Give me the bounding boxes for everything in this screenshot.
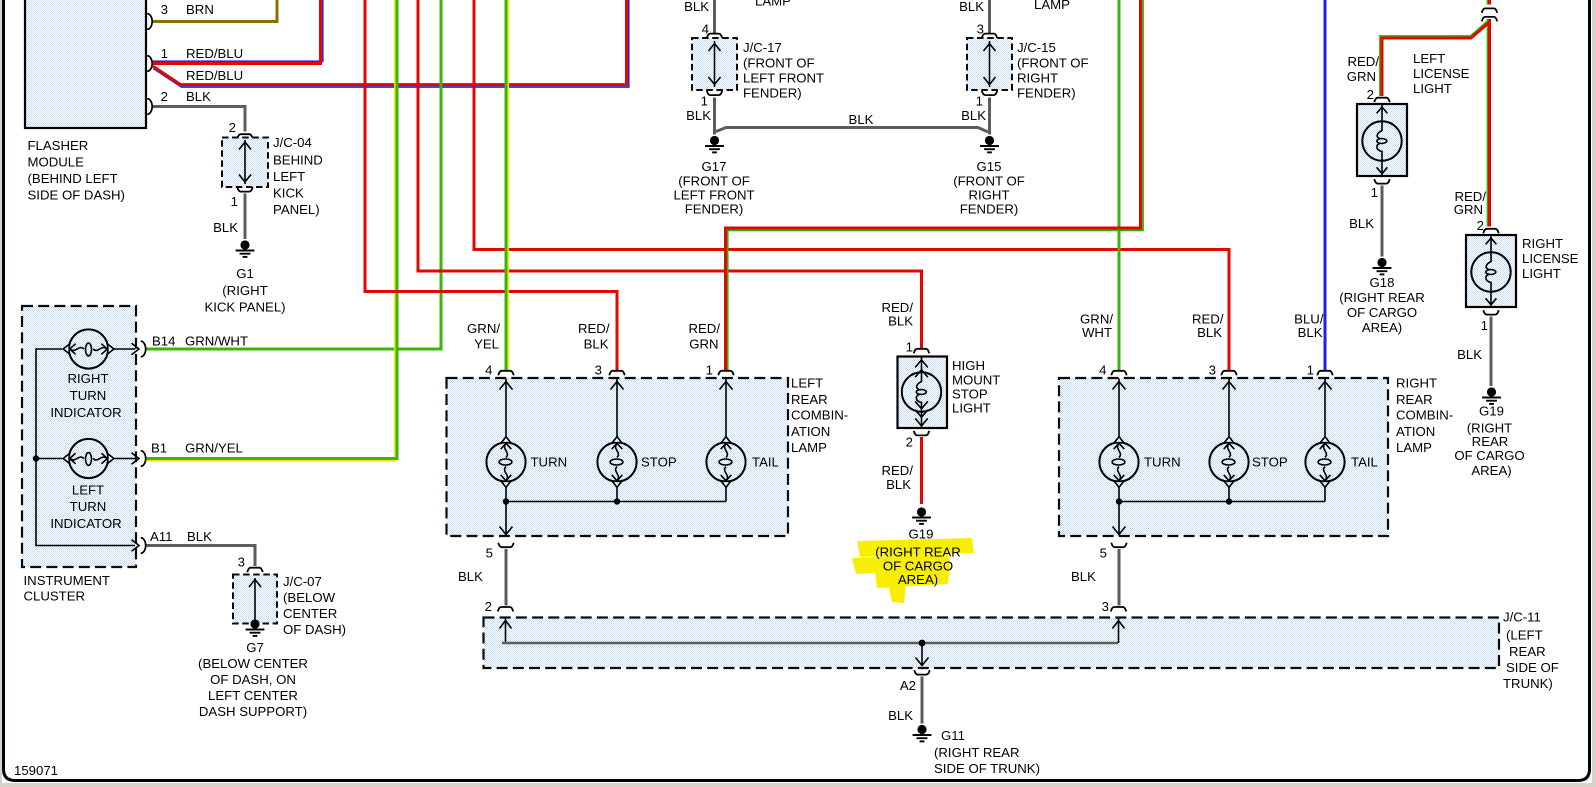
svg-text:1: 1 <box>706 363 713 378</box>
cluster pin A11 <box>132 529 213 553</box>
svg-text:LAMP: LAMP <box>1034 0 1070 12</box>
svg-text:BLK: BLK <box>458 569 483 584</box>
svg-text:B14: B14 <box>152 334 175 349</box>
right lamp pin 3 <box>1192 312 1237 437</box>
svg-text:2: 2 <box>485 599 492 614</box>
svg-text:G7: G7 <box>246 640 264 655</box>
svg-text:RIGHT: RIGHT <box>67 371 108 386</box>
svg-text:ATION: ATION <box>1396 424 1435 439</box>
svg-text:BEHIND: BEHIND <box>273 153 323 168</box>
svg-text:TURN: TURN <box>70 499 107 514</box>
wire GRN/YEL to left lamp pin 4 <box>506 0 508 370</box>
svg-text:LIGHT: LIGHT <box>952 401 991 416</box>
svg-text:KICK PANEL): KICK PANEL) <box>204 300 285 315</box>
svg-text:LIGHT: LIGHT <box>1522 266 1561 281</box>
right lamp pin 5 <box>1100 502 1127 561</box>
svg-text:RED/: RED/ <box>1347 54 1379 69</box>
stop bulb right lamp <box>1209 437 1287 488</box>
turn bulb left lamp <box>486 437 567 488</box>
svg-text:BRN: BRN <box>186 2 214 17</box>
wire RED/BLK hmsl to G19 <box>881 437 921 504</box>
svg-text:G11: G11 <box>941 728 965 743</box>
junction connector J/C-07 <box>233 555 346 638</box>
svg-text:FENDER): FENDER) <box>960 202 1019 217</box>
svg-text:RED/BLU: RED/BLU <box>186 46 243 61</box>
svg-text:GRN: GRN <box>689 337 718 352</box>
svg-text:INDICATOR: INDICATOR <box>50 405 121 420</box>
svg-text:A11: A11 <box>150 529 173 544</box>
svg-text:159071: 159071 <box>14 763 58 778</box>
ground G18 <box>1339 258 1424 335</box>
svg-text:OF DASH, ON: OF DASH, ON <box>210 672 296 687</box>
flasher pin 3 <box>147 2 214 29</box>
svg-text:BLK: BLK <box>888 708 913 723</box>
svg-text:BLK: BLK <box>1071 569 1096 584</box>
wire BLK A2 to G11 <box>888 677 922 724</box>
svg-text:HIGH: HIGH <box>952 358 985 373</box>
wire GRN/YEL to top <box>147 0 398 461</box>
turn bulb right lamp <box>1099 437 1180 488</box>
svg-text:(FRONT OF: (FRONT OF <box>953 174 1025 189</box>
wire BLK right lamp to J/C-11 pin 3 <box>1071 549 1126 614</box>
wire BRN <box>153 0 277 22</box>
wire GRN/WHT to top <box>147 0 442 349</box>
svg-text:BLK: BLK <box>686 108 711 123</box>
right turn indicator <box>50 329 139 420</box>
ground G19 right license <box>1454 387 1524 478</box>
svg-text:BLK: BLK <box>888 314 913 329</box>
svg-text:3: 3 <box>161 2 168 17</box>
wire RED/BLU b <box>153 0 629 87</box>
svg-text:2: 2 <box>1367 87 1374 102</box>
svg-text:LICENSE: LICENSE <box>1413 66 1470 81</box>
svg-text:TURN: TURN <box>1144 455 1181 470</box>
svg-text:ATION: ATION <box>791 424 830 439</box>
wire RED/BLU a <box>153 0 323 64</box>
svg-text:BLK: BLK <box>886 477 911 492</box>
wire BLK flasher to J/C-04 <box>153 107 245 132</box>
left license light <box>1347 51 1470 200</box>
svg-text:MODULE: MODULE <box>28 155 85 170</box>
svg-text:REAR: REAR <box>1509 644 1546 659</box>
left lamp pin 3 <box>578 321 625 437</box>
svg-text:AREA): AREA) <box>1362 320 1402 335</box>
svg-text:A2: A2 <box>900 678 916 693</box>
svg-text:SIDE OF DASH): SIDE OF DASH) <box>28 188 125 203</box>
svg-text:G19: G19 <box>1479 404 1504 419</box>
svg-text:RIGHT: RIGHT <box>968 188 1009 203</box>
svg-text:G1: G1 <box>236 266 254 281</box>
svg-text:(LEFT: (LEFT <box>1506 628 1543 643</box>
svg-text:(FRONT OF: (FRONT OF <box>678 174 750 189</box>
svg-text:1: 1 <box>231 194 238 209</box>
highlighter marks <box>852 538 974 603</box>
svg-text:LIGHT: LIGHT <box>1413 81 1452 96</box>
cluster pin B1 <box>141 441 243 467</box>
wire RED/GRN branch to left license light <box>1380 21 1490 97</box>
svg-text:1: 1 <box>906 340 913 355</box>
left lamp pin 5 <box>486 502 514 561</box>
svg-text:COMBIN-: COMBIN- <box>791 408 848 423</box>
svg-text:WHT: WHT <box>1082 325 1112 340</box>
junction connector J/C-17 <box>692 34 824 109</box>
right lamp pin 1 <box>1294 312 1333 437</box>
svg-text:INDICATOR: INDICATOR <box>50 516 121 531</box>
svg-text:3: 3 <box>595 363 602 378</box>
junction connector J/C-15 <box>967 34 1089 109</box>
svg-text:TAIL: TAIL <box>752 455 779 470</box>
svg-text:GRN/YEL: GRN/YEL <box>185 441 243 456</box>
svg-text:J/C-11: J/C-11 <box>1503 610 1541 625</box>
svg-text:OF CARGO: OF CARGO <box>1454 448 1524 463</box>
svg-text:1: 1 <box>976 94 983 109</box>
svg-text:J/C-17: J/C-17 <box>743 40 782 55</box>
svg-text:2: 2 <box>229 120 236 135</box>
ground G15 <box>953 136 1025 217</box>
svg-text:MOUNT: MOUNT <box>952 373 1000 388</box>
cluster pin B14 <box>141 334 248 357</box>
svg-text:BLK: BLK <box>1349 216 1374 231</box>
wire RED/GRN license feed <box>1488 0 1490 227</box>
svg-text:LEFT: LEFT <box>273 169 305 184</box>
svg-text:3: 3 <box>238 555 245 570</box>
wire BLU/BLK to right lamp pin 1 <box>1324 0 1327 370</box>
svg-text:GRN/WHT: GRN/WHT <box>185 334 248 349</box>
svg-text:LEFT: LEFT <box>72 483 104 498</box>
svg-text:G15: G15 <box>977 159 1002 174</box>
inline connector on license feed <box>1482 8 1497 21</box>
svg-text:(BELOW CENTER: (BELOW CENTER <box>198 656 308 671</box>
svg-text:YEL: YEL <box>474 337 499 352</box>
svg-text:REAR: REAR <box>791 392 828 407</box>
svg-text:LAMP: LAMP <box>755 0 791 9</box>
high mount stop light <box>881 300 1000 450</box>
wire BLK A11 to J/C-07 <box>147 546 256 567</box>
svg-text:TURN: TURN <box>531 455 568 470</box>
instrument cluster box <box>22 306 136 604</box>
svg-text:(RIGHT: (RIGHT <box>222 283 267 298</box>
wire BLK left license to G18 <box>1349 186 1382 257</box>
svg-text:RIGHT: RIGHT <box>1017 71 1058 86</box>
svg-text:(RIGHT REAR: (RIGHT REAR <box>1339 290 1424 305</box>
left rear combination lamp box <box>447 376 849 537</box>
svg-text:RIGHT: RIGHT <box>1396 376 1437 391</box>
svg-text:BLK: BLK <box>1457 347 1482 362</box>
svg-text:BLK: BLK <box>849 112 874 127</box>
ground G17 <box>673 136 754 217</box>
svg-text:BLK: BLK <box>684 0 709 14</box>
svg-text:2: 2 <box>906 435 913 450</box>
svg-text:GRN: GRN <box>1347 69 1376 84</box>
svg-text:2: 2 <box>161 89 168 104</box>
svg-text:1: 1 <box>1481 318 1488 333</box>
svg-text:LEFT CENTER: LEFT CENTER <box>208 688 298 703</box>
svg-text:4: 4 <box>485 363 492 378</box>
wire BLK J/C-04 to G1 <box>213 194 245 240</box>
svg-text:LEFT FRONT: LEFT FRONT <box>743 71 824 86</box>
svg-text:AREA): AREA) <box>898 572 938 587</box>
svg-text:BLK: BLK <box>1298 325 1323 340</box>
svg-text:1: 1 <box>1307 363 1314 378</box>
svg-text:BLK: BLK <box>187 529 212 544</box>
J/C-11 pin A2 <box>900 670 930 693</box>
svg-text:RED/: RED/ <box>881 463 913 478</box>
svg-text:CLUSTER: CLUSTER <box>24 589 86 604</box>
wire RED to left lamp stop pin 3 <box>365 0 617 370</box>
svg-text:(RIGHT REAR: (RIGHT REAR <box>934 745 1019 760</box>
wire RED/GRN to left lamp pin 1 <box>726 0 1144 370</box>
svg-text:BLK: BLK <box>961 108 986 123</box>
svg-text:RED/: RED/ <box>578 321 610 336</box>
svg-text:LEFT FRONT: LEFT FRONT <box>673 188 754 203</box>
svg-text:FENDER): FENDER) <box>1017 86 1076 101</box>
svg-text:RED/: RED/ <box>688 321 720 336</box>
svg-text:J/C-15: J/C-15 <box>1017 40 1056 55</box>
svg-text:3: 3 <box>1209 363 1216 378</box>
svg-text:G17: G17 <box>702 159 727 174</box>
svg-text:FENDER): FENDER) <box>685 202 744 217</box>
svg-text:BLK: BLK <box>213 220 238 235</box>
svg-text:LEFT: LEFT <box>791 376 823 391</box>
svg-text:STOP: STOP <box>1252 455 1288 470</box>
svg-text:FLASHER: FLASHER <box>28 138 89 153</box>
wire cluster internal bus <box>33 349 135 546</box>
wire BLK right license to G19 <box>1457 317 1491 387</box>
svg-text:REAR: REAR <box>1472 434 1509 449</box>
svg-text:(FRONT OF: (FRONT OF <box>1017 56 1089 71</box>
svg-text:STOP: STOP <box>952 387 988 402</box>
right lamp pin 4 <box>1080 312 1127 437</box>
svg-text:RED/BLU: RED/BLU <box>186 68 243 83</box>
junction connector J/C-04 <box>222 120 323 217</box>
svg-text:2: 2 <box>1477 218 1484 233</box>
left lamp pin 1 <box>688 321 733 437</box>
svg-text:(RIGHT REAR: (RIGHT REAR <box>875 545 960 560</box>
svg-text:BLK: BLK <box>959 0 984 14</box>
wire RED to high mount stop light pin 1 <box>418 0 922 348</box>
svg-text:(BEHIND LEFT: (BEHIND LEFT <box>28 171 118 186</box>
flasher pin 1 <box>147 46 243 83</box>
svg-text:G18: G18 <box>1370 275 1395 290</box>
svg-text:OF DASH): OF DASH) <box>283 622 346 637</box>
svg-text:1: 1 <box>701 94 708 109</box>
svg-text:J/C-07: J/C-07 <box>283 574 322 589</box>
svg-text:B1: B1 <box>151 441 167 456</box>
highlighted G19 location text <box>875 545 960 588</box>
left turn indicator <box>50 439 139 531</box>
svg-text:LAMP: LAMP <box>791 440 827 455</box>
ground G11 <box>913 725 1040 776</box>
svg-text:DASH SUPPORT): DASH SUPPORT) <box>199 704 307 719</box>
svg-text:INSTRUMENT: INSTRUMENT <box>24 573 110 588</box>
wire BLK left lamp to J/C-11 pin 2 <box>458 549 513 614</box>
svg-text:STOP: STOP <box>641 455 677 470</box>
svg-text:TAIL: TAIL <box>1351 455 1378 470</box>
right lamp internal bus <box>1116 488 1325 505</box>
svg-text:4: 4 <box>1099 363 1106 378</box>
ground G19 hmsl <box>909 507 934 541</box>
svg-text:BLK: BLK <box>1197 325 1222 340</box>
svg-text:1: 1 <box>161 46 168 61</box>
svg-text:FENDER): FENDER) <box>743 86 802 101</box>
wire BLK J/C-15 to G15 <box>961 98 989 135</box>
svg-text:SIDE OF TRUNK): SIDE OF TRUNK) <box>934 761 1040 776</box>
ground G1 <box>204 240 285 314</box>
svg-text:LAMP: LAMP <box>1396 440 1432 455</box>
svg-text:(FRONT OF: (FRONT OF <box>743 56 815 71</box>
stop bulb left lamp <box>597 437 676 488</box>
ground G7 <box>198 619 308 719</box>
svg-text:AREA): AREA) <box>1471 463 1511 478</box>
svg-text:J/C-04: J/C-04 <box>273 135 312 150</box>
left lamp internal bus <box>503 488 726 505</box>
wire BLK top to J/C-17 <box>684 0 714 37</box>
wire BLK top to J/C-15 <box>959 0 989 37</box>
svg-text:LEFT: LEFT <box>1413 51 1445 66</box>
svg-text:REAR: REAR <box>1396 392 1433 407</box>
svg-text:LICENSE: LICENSE <box>1522 251 1579 266</box>
wire BLK G17 to G15 <box>716 112 988 132</box>
tail bulb left lamp <box>706 437 778 488</box>
svg-text:KICK: KICK <box>273 186 304 201</box>
flasher pin 2 <box>147 89 211 114</box>
flasher module box <box>25 0 146 203</box>
svg-text:OF CARGO: OF CARGO <box>1347 305 1417 320</box>
svg-text:PANEL): PANEL) <box>273 202 320 217</box>
right rear combination lamp box <box>1059 376 1453 537</box>
svg-text:RIGHT: RIGHT <box>1522 236 1563 251</box>
junction connector J/C-11 box <box>484 610 1559 692</box>
J/C-11 internal bus <box>500 619 1125 667</box>
svg-text:SIDE OF: SIDE OF <box>1506 660 1559 675</box>
svg-text:5: 5 <box>1100 546 1107 561</box>
svg-text:TURN: TURN <box>70 388 107 403</box>
left lamp pin 4 <box>467 321 514 437</box>
wire BLK J/C-17 to G17 <box>686 98 714 135</box>
svg-text:COMBIN-: COMBIN- <box>1396 408 1453 423</box>
svg-text:CENTER: CENTER <box>283 606 337 621</box>
svg-text:BLK: BLK <box>186 89 211 104</box>
tail bulb right lamp <box>1305 437 1377 488</box>
svg-text:1: 1 <box>1371 185 1378 200</box>
svg-text:5: 5 <box>486 546 493 561</box>
svg-text:(BELOW: (BELOW <box>283 590 336 605</box>
wire RED to right lamp stop pin 3 <box>474 0 1229 370</box>
svg-text:BLK: BLK <box>584 337 609 352</box>
svg-text:GRN/: GRN/ <box>467 321 500 336</box>
svg-text:GRN: GRN <box>1454 202 1483 217</box>
right license light <box>1454 189 1579 333</box>
svg-text:3: 3 <box>1102 599 1109 614</box>
svg-text:TRUNK): TRUNK) <box>1503 676 1553 691</box>
wire GRN/WHT to right lamp pin 4 <box>1118 0 1121 370</box>
